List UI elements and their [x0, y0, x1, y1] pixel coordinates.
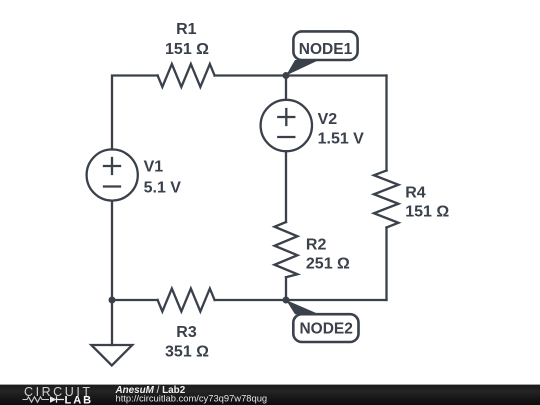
wire R3 to NODE2 junction: [215, 299, 286, 301]
logo resistor zigzag: [23, 397, 50, 402]
wire right rail lower segment: [385, 228, 387, 301]
V2 plus sign: [278, 109, 294, 125]
voltage source V1 circle: [87, 149, 138, 200]
logo diode: [50, 396, 57, 403]
svg-text:R4: R4: [405, 185, 426, 202]
wire bottom rail left segment to R3: [112, 299, 158, 301]
V2 minus sign: [278, 136, 294, 138]
resistor R4 zigzag: [374, 171, 399, 228]
wire ground lead: [111, 300, 113, 345]
node NODE1 junction dot: [283, 72, 290, 79]
svg-text:R3: R3: [176, 324, 197, 341]
node NODE2 pointer wedge: [286, 300, 319, 314]
voltage source V2 circle: [261, 100, 312, 151]
svg-text:151 Ω: 151 Ω: [405, 204, 449, 221]
wire right rail upper segment: [385, 76, 387, 171]
svg-text:351 Ω: 351 Ω: [165, 344, 209, 361]
V1 plus sign: [104, 158, 120, 174]
wire R1 to NODE1 to top-right corner: [215, 74, 387, 76]
svg-text:1.51 V: 1.51 V: [318, 131, 365, 148]
node NODE2 junction dot: [283, 297, 290, 304]
wire bottom rail right segment: [286, 299, 387, 301]
resistor R1 zigzag: [158, 64, 215, 87]
resistor R2 zigzag: [275, 222, 298, 277]
svg-text:NODE2: NODE2: [299, 320, 352, 337]
node NODE2 label box: [293, 314, 358, 342]
svg-text:151 Ω: 151 Ω: [165, 41, 209, 58]
V1 minus sign: [104, 185, 120, 187]
svg-text:R2: R2: [306, 236, 327, 253]
wire V1 bottom lead down to bottom-left junction: [111, 201, 113, 300]
node NODE1 pointer wedge: [286, 60, 319, 76]
ground symbol triangle: [91, 345, 132, 366]
svg-text:V1: V1: [144, 159, 164, 176]
wire NODE1 junction down to V2 top: [285, 76, 287, 100]
svg-text:5.1 V: 5.1 V: [144, 180, 182, 197]
wire top-left corner: left rail up + top rail to R1: [112, 76, 158, 150]
svg-text:V2: V2: [318, 111, 338, 128]
node NODE1 label box: [293, 31, 357, 60]
resistor R3 zigzag: [158, 289, 215, 312]
svg-text:LAB: LAB: [65, 395, 94, 405]
svg-text:251 Ω: 251 Ω: [306, 256, 350, 273]
svg-text:R1: R1: [176, 21, 197, 38]
svg-text:http://circuitlab.com/cy73q97w: http://circuitlab.com/cy73q97w78qug: [116, 393, 268, 404]
junction dot bottom-left: [109, 297, 116, 304]
wire V2 bottom lead to R2: [285, 151, 287, 222]
wire R2 bottom lead to NODE2: [285, 277, 287, 300]
svg-text:NODE1: NODE1: [299, 41, 353, 58]
